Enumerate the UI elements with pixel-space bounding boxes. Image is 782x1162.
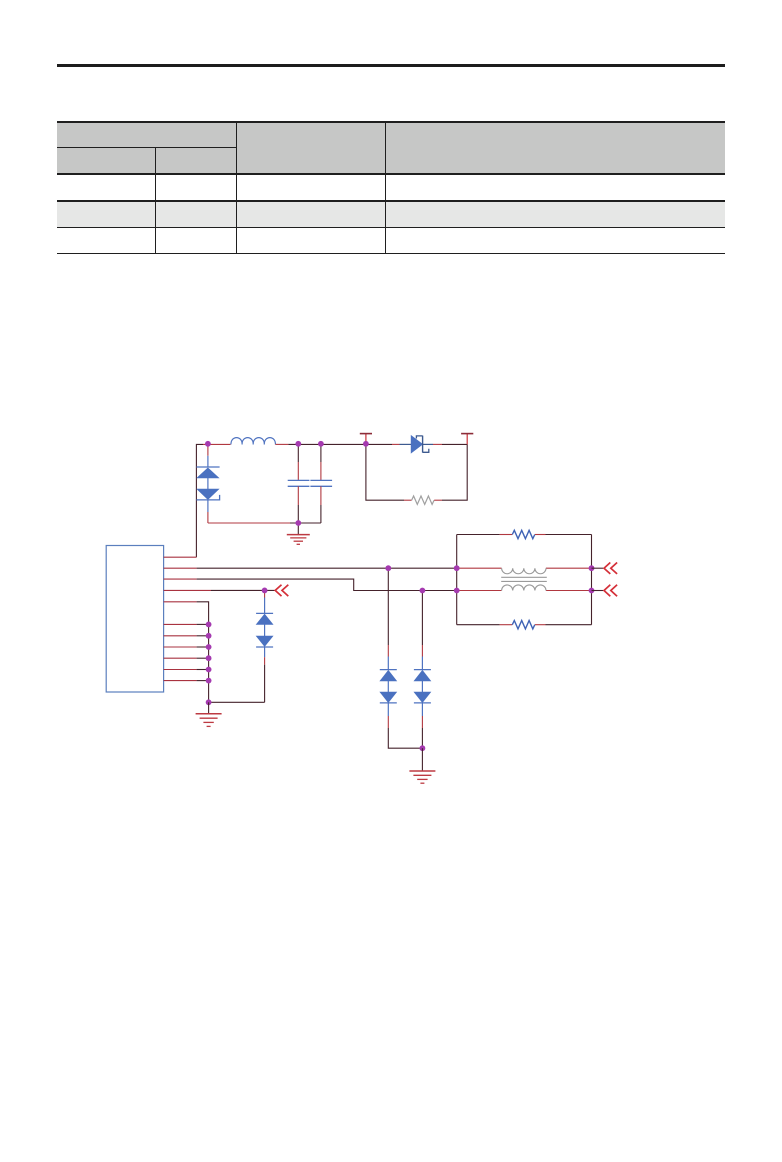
- table row border: [57, 227, 726, 228]
- wire: bus to TVS D3 bottom: [209, 701, 265, 703]
- node: junction dot C1 top: [295, 441, 301, 447]
- node: junction dot pin4 net: [262, 588, 268, 594]
- table header split line (left columns only): [57, 147, 237, 148]
- ground GND2: [196, 714, 222, 727]
- table vertical line col2: [236, 121, 237, 253]
- wire: TVS D5 bottom leg: [421, 703, 423, 748]
- wire: damping loop top right: [535, 534, 592, 536]
- op-amp U1 IC box: [106, 546, 163, 693]
- wire: net A vertical drop to TVS D4: [387, 568, 389, 669]
- inductor L1: [231, 438, 276, 445]
- capacitor C2 lower lead: [320, 486, 322, 523]
- table header fill: [57, 122, 726, 174]
- table vertical line col1 split: [155, 147, 156, 253]
- ground GND3 stem: [421, 748, 423, 770]
- resistor R3: [512, 621, 535, 629]
- node: junction dot at AC corner: [205, 441, 211, 447]
- table top border: [57, 121, 726, 122]
- table row border: [57, 200, 726, 201]
- node: choke right junction dots: [589, 565, 595, 593]
- table zebra row fill: [57, 201, 726, 228]
- pin 10 wire: [164, 669, 209, 671]
- wire: net B vertical drop to TVS D5: [421, 591, 423, 670]
- wire: bottom return bus of input filter: [208, 522, 321, 524]
- pin 8 wire: [164, 646, 209, 648]
- node: junction dot bottom bus: [295, 520, 301, 526]
- wire: diode cathode to right corner: [423, 443, 468, 445]
- wire: TVS D4 bottom leg: [388, 703, 422, 748]
- pin 4 wire to connector J1: [164, 589, 275, 591]
- connector J2 chevron: [604, 563, 617, 574]
- wire: ground bus vertical: [208, 624, 210, 702]
- node: bus junction dots: [206, 622, 212, 706]
- capacitor C1: [288, 480, 310, 486]
- ground GND1: [287, 535, 310, 545]
- transformer T1 left rail: [456, 535, 458, 625]
- ground GND1 stem: [297, 523, 299, 534]
- wire: top-left vertical from IC pin 1 up to AC input corner: [196, 444, 203, 557]
- capacitor C2 upper lead: [320, 444, 322, 480]
- node: junction dot net B: [420, 588, 426, 594]
- wire: inductor to capacitor junctions: [275, 443, 366, 445]
- wire: damping loop bottom left: [457, 624, 513, 626]
- terminal T2: [461, 434, 473, 445]
- capacitor C1 lower lead: [297, 486, 299, 523]
- TVS diode D2 top stub: [207, 444, 209, 467]
- node: junction dot T1 terminal: [363, 441, 369, 447]
- top horizontal rule: [57, 64, 725, 67]
- pin 9 wire: [164, 657, 209, 659]
- wire: choke bottom winding leads: [457, 590, 592, 592]
- node: junction dot C2 top: [318, 441, 324, 447]
- connector J1 chevron: [275, 585, 288, 596]
- choke T1 top winding: [502, 568, 546, 574]
- table bottom border: [57, 253, 726, 254]
- pin 2 wire long net A: [164, 567, 457, 569]
- TVS diode D2: [196, 467, 219, 500]
- wire: snubber loop right side: [434, 444, 467, 500]
- pin 6 wire: [164, 623, 209, 625]
- wire: damping loop top left: [457, 534, 513, 536]
- choke T1 core: [501, 577, 547, 581]
- pin 1 wire: [164, 556, 197, 558]
- node: choke left junction dots: [454, 565, 460, 593]
- terminal T1: [360, 434, 372, 445]
- capacitor C2: [310, 480, 332, 486]
- ground GND3: [409, 771, 435, 783]
- TVS diode D4: [380, 670, 397, 703]
- wire: stub to connector J3: [592, 590, 604, 592]
- node: junction dot net A: [385, 565, 391, 571]
- resistor R2: [512, 530, 535, 538]
- transformer T1 right rail: [591, 535, 593, 625]
- TVS diode D3 top stub: [264, 590, 266, 613]
- choke T1 bottom winding: [502, 585, 546, 591]
- table header bottom border: [57, 173, 726, 175]
- ground GND2 stem: [208, 702, 210, 713]
- capacitor C1 upper lead: [297, 444, 299, 480]
- TVS diode D3 bottom stub: [264, 647, 266, 702]
- TVS diode D5: [414, 670, 431, 703]
- wire: choke top winding leads: [457, 567, 592, 569]
- pin 7 wire: [164, 635, 209, 637]
- wire: stub to connector J2: [592, 567, 604, 569]
- table vertical line col3: [385, 121, 386, 253]
- pin 3 wire long net B with jog: [164, 579, 457, 590]
- wire: red segment junction to inductor: [203, 443, 231, 445]
- TVS diode D3: [256, 613, 273, 647]
- connector J3 chevron: [604, 585, 617, 596]
- diode D1 schottky: [411, 436, 429, 453]
- wire: damping loop bottom right: [535, 624, 592, 626]
- node: junction dot TVS common: [420, 745, 426, 751]
- wire: junction T1 to diode anode: [366, 443, 411, 445]
- pin 11 wire: [164, 680, 209, 682]
- resistor R1: [412, 496, 435, 504]
- pin 5 wire to ground bus: [164, 602, 209, 625]
- wire: snubber loop left side: [366, 444, 412, 500]
- TVS diode D2 bottom stub: [207, 500, 209, 523]
